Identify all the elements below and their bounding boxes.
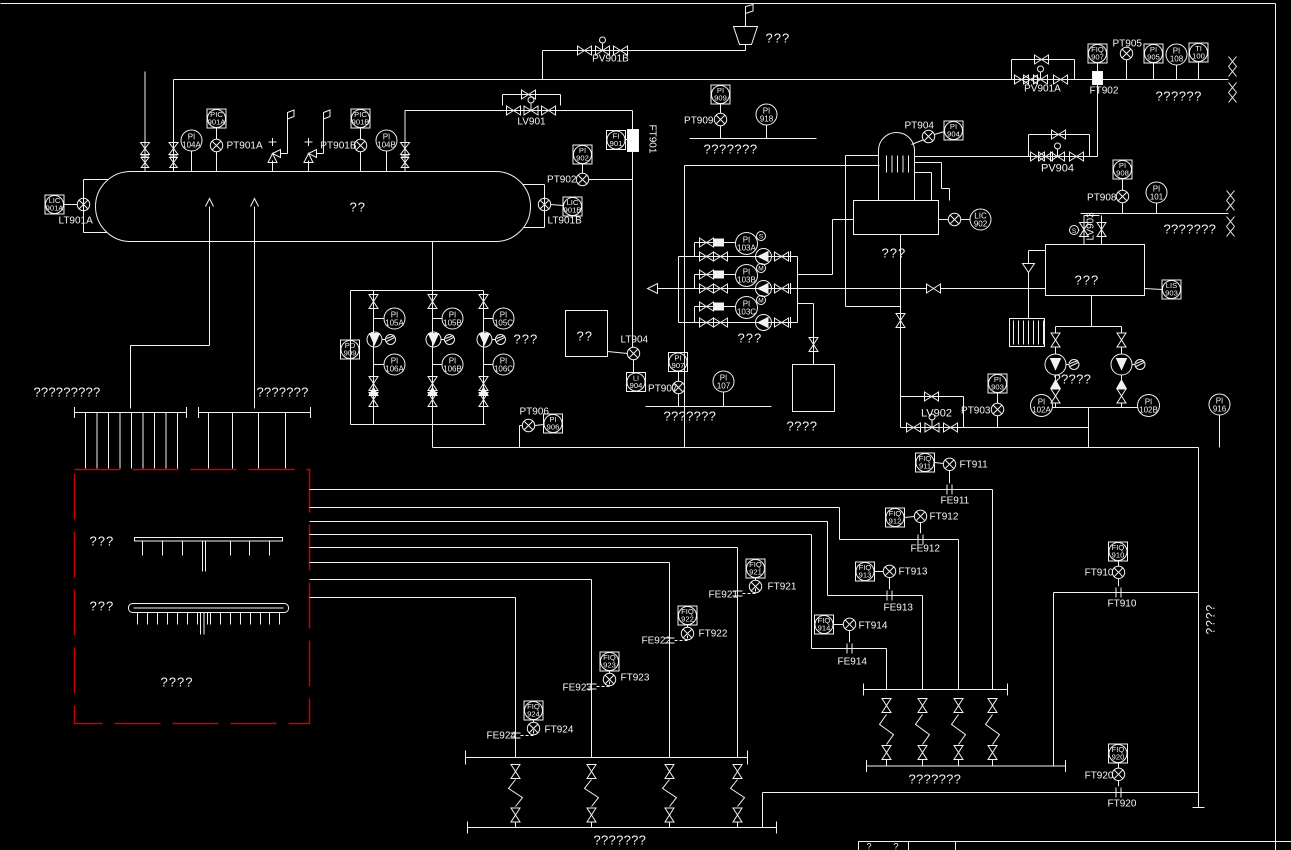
flex hose 92x 591 bbox=[585, 780, 599, 807]
vessel internal arrow 1 bbox=[206, 199, 214, 207]
vessel internal arrow 2 bbox=[251, 199, 259, 207]
valve pump C suction 2 bbox=[714, 318, 728, 327]
FE920 orifice bbox=[1115, 788, 1117, 798]
FE914 orifice bbox=[846, 644, 848, 654]
valve pump A suction 2 bbox=[714, 252, 728, 261]
svg-text:920: 920 bbox=[1112, 753, 1125, 762]
FE922 signal line bbox=[675, 636, 688, 641]
check valve pump A aux bbox=[715, 239, 724, 246]
svg-text:FT920: FT920 bbox=[1108, 799, 1137, 810]
instrument PI918 bbox=[756, 104, 777, 125]
instrument PI107 bbox=[713, 371, 734, 392]
pump PB bbox=[756, 281, 772, 297]
pump PA bbox=[756, 249, 772, 265]
vessel bottom outlet bbox=[432, 242, 434, 291]
fuel line 1 bbox=[310, 489, 993, 491]
valve 92x 737 top bbox=[733, 765, 742, 779]
pump discharge to drum bbox=[798, 274, 833, 276]
svg-text:LV902: LV902 bbox=[921, 408, 952, 420]
FE921 orifice bbox=[733, 590, 743, 592]
PV901A bypass bbox=[1011, 60, 1013, 80]
steam users header bbox=[1081, 213, 1229, 215]
tap PT901A bbox=[210, 139, 222, 151]
vent A bbox=[382, 339, 386, 341]
svg-text:100: 100 bbox=[1192, 52, 1205, 61]
instrument LIC901B bbox=[563, 197, 582, 216]
FT901 flow element bbox=[628, 130, 639, 152]
svg-text:902: 902 bbox=[974, 219, 988, 228]
fuel line 2 bbox=[310, 507, 840, 509]
PV904 bypass bbox=[1028, 135, 1030, 157]
instrument PI105C bbox=[484, 318, 494, 320]
deaerator nozzle 1 bbox=[915, 162, 942, 164]
collection line bbox=[433, 447, 1199, 449]
valve drum outlet bbox=[896, 314, 905, 328]
feed arrow bbox=[648, 284, 658, 294]
drum outlet down bbox=[900, 235, 902, 397]
check string A bbox=[369, 388, 378, 396]
svg-text:FT902: FT902 bbox=[1090, 86, 1119, 97]
svg-text:FE924: FE924 bbox=[487, 731, 517, 742]
svg-text:904: 904 bbox=[630, 381, 643, 390]
instrument PI106B bbox=[433, 364, 443, 366]
svg-text:FT920: FT920 bbox=[1085, 771, 1114, 782]
valve string x992 bottom bbox=[988, 746, 997, 760]
valve 92x 669 top bbox=[665, 765, 674, 779]
tap LT901B bbox=[538, 198, 550, 210]
svg-text:901A: 901A bbox=[208, 118, 227, 127]
instrument PI105B bbox=[433, 318, 443, 320]
svg-text:FE914: FE914 bbox=[838, 657, 868, 668]
svg-text:905: 905 bbox=[1147, 53, 1160, 62]
vessel V901 drum bbox=[96, 172, 531, 242]
deaerator nozzle 2 bbox=[915, 172, 932, 174]
FE923 orifice bbox=[587, 683, 597, 685]
svg-text:105B: 105B bbox=[443, 318, 462, 327]
svg-text:922: 922 bbox=[681, 615, 694, 624]
valve LV902 upstream bbox=[907, 423, 921, 432]
FE923 signal line bbox=[597, 682, 610, 687]
pump B top line bbox=[695, 274, 736, 276]
tap PT906 bbox=[522, 419, 534, 431]
instrument PI907 bbox=[669, 353, 688, 372]
pump 102 discharge line bbox=[1053, 407, 1138, 409]
FT920 line drop bbox=[762, 793, 764, 828]
svg-text:??: ?? bbox=[350, 200, 366, 215]
svg-text:???????: ??????? bbox=[704, 142, 758, 157]
check string B bbox=[428, 388, 437, 396]
svg-text:FE913: FE913 bbox=[884, 603, 914, 614]
svg-text:???: ??? bbox=[1075, 273, 1100, 288]
instrument PI103B bbox=[736, 265, 758, 287]
vent line 1 bbox=[144, 72, 146, 172]
instrument PI106A bbox=[374, 364, 385, 366]
valves on vent 2 bbox=[169, 143, 178, 155]
instrument FI901 bbox=[607, 131, 626, 150]
pump C top line bbox=[695, 306, 736, 308]
svg-text:PV904: PV904 bbox=[1041, 163, 1074, 175]
control valve PV901A bbox=[1034, 75, 1048, 84]
valve string x922 top bbox=[918, 699, 927, 713]
motor indicator S bbox=[757, 232, 766, 241]
FT902 line down bbox=[1097, 85, 1099, 157]
svg-text:909: 909 bbox=[344, 349, 357, 358]
instrument FIQ910 bbox=[1109, 542, 1128, 561]
line break mark right bbox=[1227, 191, 1235, 201]
svg-text:PT903: PT903 bbox=[961, 406, 991, 417]
FE912 orifice bbox=[917, 535, 919, 545]
svg-text:102A: 102A bbox=[1032, 405, 1051, 414]
feedwater main line bbox=[658, 288, 927, 290]
deaerator internals bbox=[886, 156, 888, 173]
valve pump 102A suction bbox=[1051, 333, 1060, 347]
flex hose 92x 737 bbox=[731, 780, 745, 807]
tap FT914 bbox=[849, 631, 851, 643]
svg-text:106C: 106C bbox=[494, 364, 513, 373]
FT910 line bbox=[1054, 592, 1199, 594]
instrument FIQ914 bbox=[815, 615, 834, 634]
svg-text:901: 901 bbox=[610, 139, 623, 148]
valve LV901 upstream bbox=[507, 106, 521, 115]
pump B suction line bbox=[679, 288, 798, 290]
svg-text:FT924: FT924 bbox=[545, 725, 574, 736]
svg-text:107: 107 bbox=[717, 381, 731, 390]
svg-text:918: 918 bbox=[760, 114, 774, 123]
fuel line 6 bbox=[310, 562, 670, 564]
tap FT923 bbox=[603, 673, 615, 685]
valve pump B suction 2 bbox=[714, 284, 728, 293]
svg-text:105C: 105C bbox=[494, 318, 513, 327]
svg-text:LV903: LV903 bbox=[1086, 212, 1097, 241]
svg-text:104A: 104A bbox=[182, 140, 201, 149]
PT909 header bbox=[690, 138, 817, 140]
check valve pump B aux bbox=[715, 271, 724, 278]
svg-text:910: 910 bbox=[1112, 551, 1125, 560]
vent C bbox=[492, 339, 496, 341]
tap FT921 bbox=[749, 580, 761, 592]
svg-text:FT901: FT901 bbox=[647, 125, 658, 154]
manifold 91x bottom bar bbox=[867, 765, 1066, 767]
outlet line 1 bbox=[209, 207, 211, 346]
vent pump 102B bbox=[1132, 364, 1135, 366]
vent B bbox=[441, 339, 445, 341]
valve pump C suction 1 bbox=[700, 318, 714, 327]
valve pump 102B suction bbox=[1117, 333, 1126, 347]
svg-text:FT923: FT923 bbox=[621, 673, 650, 684]
svg-text:907: 907 bbox=[672, 361, 685, 370]
svg-text:?????????: ????????? bbox=[34, 385, 101, 400]
fuel line 7 bbox=[310, 579, 592, 581]
svg-text:????: ???? bbox=[787, 419, 818, 434]
svg-text:901A: 901A bbox=[46, 204, 65, 213]
svg-text:FT910: FT910 bbox=[1085, 568, 1114, 579]
tap FT924 bbox=[527, 722, 539, 734]
LV901 bypass bbox=[502, 95, 504, 106]
valve tank inlet 2 bbox=[1101, 216, 1103, 245]
instrument FIQ922 bbox=[678, 606, 697, 625]
svg-text:LT901A: LT901A bbox=[59, 216, 94, 227]
relief valve PSV-A bbox=[272, 161, 274, 172]
flex hose x922 bbox=[916, 715, 930, 745]
valve pump A suction 1 bbox=[700, 252, 714, 261]
valve PV901A downstream bbox=[1054, 75, 1068, 84]
valve string B b2 bbox=[428, 393, 437, 407]
valve string x992 top bbox=[988, 699, 997, 713]
PV904 line bbox=[915, 156, 1098, 158]
svg-text:???????: ??????? bbox=[1164, 222, 1217, 237]
svg-text:104B: 104B bbox=[377, 140, 396, 149]
svg-text:PT901A: PT901A bbox=[227, 141, 263, 152]
FE924 signal line bbox=[521, 731, 534, 736]
control valve PV904 bbox=[1051, 152, 1065, 161]
valve pump C discharge bbox=[775, 318, 789, 327]
instrument PIC901B bbox=[351, 109, 370, 128]
burner lance 1 bbox=[135, 538, 283, 542]
LV902 main line bbox=[901, 427, 964, 429]
svg-text:103C: 103C bbox=[737, 307, 756, 316]
svg-text:???: ??? bbox=[882, 246, 907, 261]
control valve LV901 bbox=[524, 106, 538, 115]
FE913 orifice bbox=[886, 591, 888, 601]
fuel line 3 bbox=[310, 521, 828, 523]
valve 92x 515 top bbox=[511, 765, 520, 779]
svg-text:FT910: FT910 bbox=[1108, 599, 1137, 610]
LT901B bridle bbox=[544, 185, 546, 228]
tap LT904 bbox=[608, 352, 628, 354]
PV901B branch riser bbox=[542, 51, 544, 80]
sample box bbox=[566, 311, 608, 357]
pump P102A bbox=[1055, 347, 1057, 355]
svg-text:FT922: FT922 bbox=[699, 629, 728, 640]
tap FT922 bbox=[681, 627, 693, 639]
svg-text:???: ??? bbox=[738, 331, 763, 346]
svg-text:???: ??? bbox=[766, 31, 791, 46]
svg-text:S: S bbox=[759, 234, 764, 241]
svg-text:108: 108 bbox=[1170, 54, 1184, 63]
FT901 line down bbox=[632, 111, 634, 348]
FE911 orifice bbox=[946, 485, 948, 495]
line down to LV902 area bbox=[684, 166, 686, 448]
valve string x886 bottom bbox=[882, 746, 891, 760]
FT901 branch bbox=[561, 110, 633, 112]
vent pump 102A bbox=[1066, 364, 1069, 366]
pump gauge B bbox=[426, 332, 441, 347]
instrument PIC901A bbox=[207, 109, 226, 128]
tap FT912 bbox=[920, 523, 922, 534]
svg-text:???: ??? bbox=[90, 534, 115, 549]
valve PV904 upstream bbox=[1031, 152, 1045, 161]
valve string A top bbox=[369, 295, 378, 309]
outlet line 2 bbox=[254, 207, 256, 409]
tap FT920 bbox=[1118, 781, 1120, 787]
svg-text:FT914: FT914 bbox=[859, 621, 888, 632]
svg-text:???????: ??????? bbox=[594, 833, 647, 848]
valve pump 102A discharge bbox=[1051, 389, 1060, 403]
steam outlet riser bbox=[404, 111, 406, 172]
svg-text:902: 902 bbox=[576, 154, 589, 163]
valve LV901 downstream bbox=[542, 106, 556, 115]
deaerator jacket line bbox=[846, 155, 879, 157]
svg-text:FT913: FT913 bbox=[899, 567, 928, 578]
flare header line bbox=[174, 79, 1229, 81]
bypass valve PV901A bbox=[1035, 55, 1049, 64]
line to LV901 bbox=[405, 110, 633, 112]
flex hose x992 bbox=[986, 715, 1000, 745]
svg-text:909: 909 bbox=[714, 94, 727, 103]
instrument TI100 bbox=[1189, 43, 1208, 62]
svg-text:916: 916 bbox=[1213, 404, 1227, 413]
collection line drop bbox=[1198, 448, 1200, 808]
valve pump C aux bbox=[700, 302, 714, 311]
instrument LI904 bbox=[627, 373, 646, 392]
valve string B b1 bbox=[428, 377, 437, 391]
instrument FIQ912 bbox=[886, 508, 905, 527]
instrument PI102B bbox=[1138, 395, 1160, 417]
tap PT907 bbox=[672, 381, 684, 393]
instrument PD909 bbox=[341, 340, 360, 359]
valve string B top bbox=[428, 295, 437, 309]
instrument PI103A bbox=[736, 233, 758, 255]
valve string x922 bottom bbox=[918, 746, 927, 760]
svg-text:S: S bbox=[1072, 228, 1077, 235]
svg-text:???????: ??????? bbox=[664, 409, 717, 424]
feedwater line to tank bbox=[941, 288, 1046, 290]
fuel line 8 bbox=[310, 597, 516, 599]
bypass valve LV902 bbox=[925, 392, 939, 401]
svg-text:106B: 106B bbox=[443, 364, 462, 373]
pump gauge C bbox=[477, 332, 492, 347]
svg-text:103A: 103A bbox=[737, 243, 756, 252]
instrument FIQ911 bbox=[916, 453, 935, 472]
svg-text:????: ???? bbox=[161, 675, 194, 690]
instrument FIQ924 bbox=[524, 701, 543, 720]
valve string C top bbox=[479, 295, 488, 309]
instrument PI104B bbox=[376, 130, 397, 151]
FT910 riser bbox=[1053, 593, 1055, 767]
jacket elbow bbox=[846, 306, 901, 308]
svg-text:FE921: FE921 bbox=[709, 590, 739, 601]
burner header bbox=[199, 412, 311, 414]
check valve pump 102A bbox=[1055, 375, 1057, 380]
fuel line 5 bbox=[310, 547, 738, 549]
manifold 92x top bar bbox=[466, 757, 748, 759]
valve PV904 downstream bbox=[1070, 152, 1084, 161]
svg-text:912: 912 bbox=[889, 517, 902, 526]
svg-text:???????: ??????? bbox=[257, 385, 309, 400]
fuel line 3 drop bbox=[922, 596, 924, 690]
valve pump B suction 1 bbox=[700, 284, 714, 293]
instrument PI902 bbox=[573, 145, 592, 164]
instrument LIC902 bbox=[970, 209, 991, 230]
valve PV901B upstream bbox=[578, 46, 592, 55]
bypass valve bbox=[522, 90, 536, 99]
svg-text:101: 101 bbox=[1150, 192, 1164, 201]
check string C bbox=[479, 388, 488, 396]
tank outlet bbox=[1091, 296, 1093, 327]
svg-text:PT905: PT905 bbox=[1113, 39, 1143, 50]
svg-text:PT901B: PT901B bbox=[320, 141, 356, 152]
valve 92x 669 bottom bbox=[665, 808, 674, 822]
svg-text:LV901: LV901 bbox=[517, 117, 546, 128]
overflow funnel bbox=[1023, 264, 1035, 273]
svg-text:PT902: PT902 bbox=[547, 175, 577, 186]
svg-text:PT904: PT904 bbox=[905, 121, 935, 132]
tap LIC902 bbox=[939, 219, 949, 221]
boiler drum bbox=[854, 201, 939, 235]
valve pump 102B discharge bbox=[1117, 389, 1126, 403]
svg-text:FE911: FE911 bbox=[941, 496, 970, 507]
svg-text:???: ??? bbox=[514, 332, 539, 347]
instrument PI101 bbox=[1146, 182, 1167, 203]
svg-text:?: ? bbox=[894, 842, 899, 850]
svg-text:PT906: PT906 bbox=[520, 407, 550, 418]
control valve LV902 bbox=[925, 423, 939, 432]
svg-text:914: 914 bbox=[818, 624, 831, 633]
svg-text:PV901B: PV901B bbox=[592, 54, 629, 65]
instrument FIQ907 bbox=[1088, 44, 1107, 63]
instrument LIS903 bbox=[1162, 280, 1181, 299]
FT902 flow element bbox=[1093, 72, 1103, 85]
instrument FIQ913 bbox=[856, 562, 875, 581]
motor indicator M bbox=[757, 296, 766, 305]
string C line bbox=[483, 291, 485, 425]
tap FT910 bbox=[1118, 579, 1120, 587]
svg-text:904: 904 bbox=[947, 130, 960, 139]
svg-text:??: ?? bbox=[577, 329, 593, 344]
instrument PI103C bbox=[736, 297, 758, 319]
svg-text:FE923: FE923 bbox=[563, 683, 593, 694]
pump gauge A bbox=[367, 332, 382, 347]
svg-text:103B: 103B bbox=[737, 275, 756, 284]
svg-text:LT904: LT904 bbox=[621, 335, 649, 346]
svg-text:913: 913 bbox=[859, 571, 872, 580]
FE921 signal line bbox=[743, 589, 756, 594]
check valve pump 102B bbox=[1121, 375, 1123, 380]
tap PT909 bbox=[714, 113, 726, 125]
tap PT908 bbox=[1116, 190, 1128, 202]
valve string A b2 bbox=[369, 393, 378, 407]
valve pump B discharge bbox=[775, 284, 789, 293]
valve string C b1 bbox=[479, 377, 488, 391]
svg-text:911: 911 bbox=[919, 462, 931, 471]
svg-text:????: ???? bbox=[1204, 604, 1218, 635]
control valve PV901B bbox=[596, 46, 610, 55]
svg-text:???: ??? bbox=[90, 599, 115, 614]
svg-text:908: 908 bbox=[1116, 169, 1129, 178]
svg-text:105A: 105A bbox=[385, 318, 404, 327]
valve PV901A upstream bbox=[1015, 75, 1029, 84]
instrument FIQ923 bbox=[600, 652, 619, 671]
instrument PI108 bbox=[1166, 44, 1187, 65]
tap PT904 bbox=[922, 130, 934, 142]
pump P102B bbox=[1121, 347, 1123, 355]
instrument PI903 bbox=[988, 374, 1007, 393]
valve string C b2 bbox=[479, 393, 488, 407]
valve 92x 515 bottom bbox=[511, 808, 520, 822]
fuel line 4 drop bbox=[886, 649, 888, 690]
fuel line 4 bbox=[310, 534, 812, 536]
valve pump B aux bbox=[700, 270, 714, 279]
svg-text:901B: 901B bbox=[352, 118, 370, 127]
valve string x958 bottom bbox=[954, 746, 963, 760]
valve 92x 737 bottom bbox=[733, 808, 742, 822]
discharge line down bbox=[1088, 408, 1090, 448]
svg-text:M: M bbox=[758, 298, 763, 305]
tap PT901B bbox=[354, 139, 366, 151]
pump A top line bbox=[695, 242, 736, 244]
instrument PI904 bbox=[944, 121, 963, 140]
line break mark top bbox=[1229, 57, 1237, 67]
